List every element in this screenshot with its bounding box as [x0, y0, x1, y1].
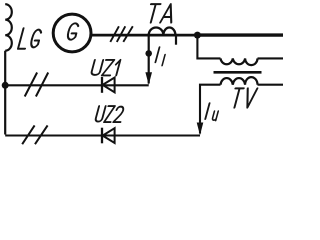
label LG [18, 28, 42, 49]
label G inside circle [66, 23, 79, 39]
label Iu [205, 103, 209, 119]
generator circle G [53, 14, 91, 52]
wire: TA left lead down to UZ1 rail [148, 35, 150, 83]
node: TA polarity dot [145, 50, 152, 57]
current transformer TA winding (two humps above line) [149, 28, 176, 36]
label UZ1 [91, 60, 121, 76]
diode rectifier UZ1 cathode bar [101, 77, 103, 93]
diode rectifier UZ1 triangle [103, 78, 115, 93]
diode rectifier UZ2 triangle [103, 128, 115, 143]
TV core bar [214, 71, 262, 74]
wire: bottom rail UZ2 [5, 134, 200, 136]
label Il [155, 47, 159, 62]
diode rectifier UZ2 cathode bar [101, 128, 103, 144]
wire: bus junction down to TV primary [197, 35, 220, 58]
three-phase slash marks on generator lead [110, 26, 133, 42]
arrow: current Il flowing down [145, 72, 152, 85]
wire: TA right stub [175, 35, 177, 45]
wire: UZ1 rail [5, 84, 149, 86]
wire: TV secondary right lead to edge [258, 84, 284, 86]
voltage transformer TV primary winding (arcs bulging down) [221, 58, 258, 65]
arrow: current Iu flowing down [197, 123, 204, 136]
wire: TV secondary left lead down to bottom rail [200, 85, 221, 134]
node: bus junction dot [194, 32, 201, 39]
node: junction dot on left vertical at UZ1 rail [2, 82, 9, 89]
wire: left vertical from LG down to bottom rail [4, 51, 6, 135]
label TV [230, 88, 257, 107]
wire: TV primary right lead to edge [258, 57, 284, 59]
label UZ2 [95, 106, 125, 122]
wire: generator output to bus junction [90, 34, 197, 37]
voltage transformer TV secondary winding (arcs bulging up) [221, 77, 258, 85]
two-conductor slash marks on UZ1 rail [25, 73, 49, 97]
inductor LG (generator field winding) [5, 4, 12, 51]
two-conductor slash marks on UZ2 rail [22, 125, 47, 144]
label TA [146, 4, 176, 23]
wire: generator bus to right edge (thick) [195, 33, 283, 36]
